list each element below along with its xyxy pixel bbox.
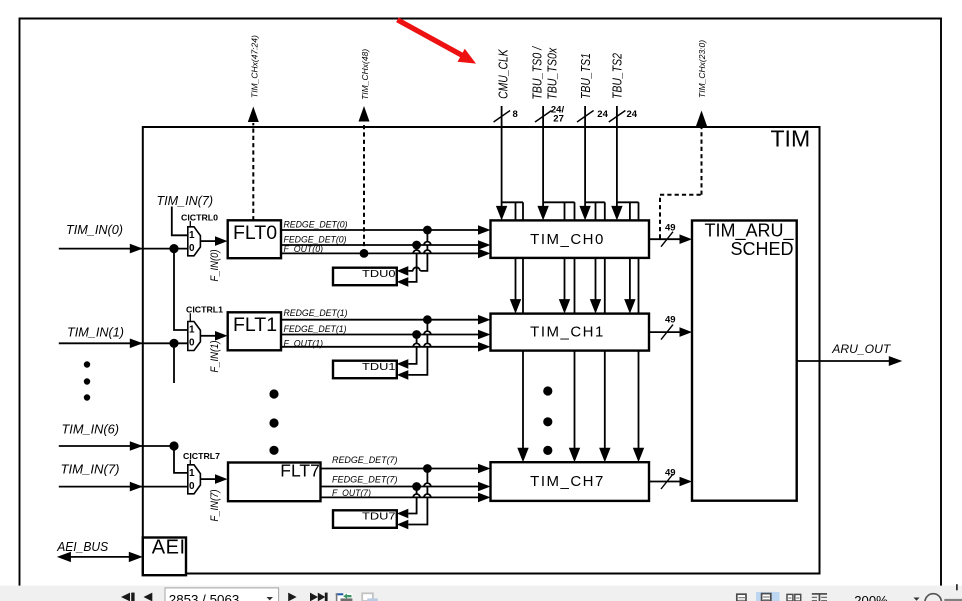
wire REDGE_DET(1) bbox=[281, 319, 480, 321]
svg-text:TIM: TIM bbox=[771, 126, 811, 152]
toolbar next-page button bbox=[288, 593, 296, 601]
svg-text:TIM_IN(7): TIM_IN(7) bbox=[157, 193, 214, 208]
junction FEDGE_DET(1) tap bbox=[412, 330, 421, 339]
wire FEDGE_DET(0) bbox=[281, 244, 480, 246]
slash TBU_TS0 width 24/27 bbox=[535, 111, 552, 123]
slash TBU_TS2 width 24 bbox=[609, 111, 626, 123]
svg-text:TIM_IN(6): TIM_IN(6) bbox=[62, 422, 120, 437]
svg-text:F_IN(7): F_IN(7) bbox=[209, 489, 221, 521]
wire AEI_BUS bbox=[70, 556, 130, 558]
label FEDGE_DET(7) bbox=[332, 474, 398, 484]
label AEI bbox=[152, 537, 186, 559]
label F_IN(7) rotated bbox=[209, 489, 221, 521]
wire TIM_IN(7) stub to CICTRL0 input 1 bbox=[172, 207, 188, 236]
svg-text:TIM_CH0: TIM_CH0 bbox=[530, 231, 605, 248]
svg-text:FLT0: FLT0 bbox=[233, 222, 277, 244]
bus width 8 bbox=[513, 109, 518, 120]
svg-text:1: 1 bbox=[189, 230, 195, 241]
wire TIM_IN(6) input bbox=[59, 445, 174, 447]
red annotation arrow bbox=[397, 20, 476, 64]
label TBU_TS0 / TBU_TS0x rotated bbox=[530, 46, 560, 100]
wire TIM_IN(7) input bbox=[59, 486, 188, 488]
label TIM_IN(7) bbox=[61, 462, 120, 477]
wire TBU_TS2 pass-through duct at TIM_CH0 bbox=[617, 202, 639, 220]
label TIM_CH0 bbox=[530, 231, 605, 248]
label FLT1 bbox=[233, 314, 277, 336]
wire REDGE_DET(0) bbox=[281, 229, 480, 231]
label TIM_CHx(23:0) rotated bbox=[697, 40, 707, 98]
block FLT0 bbox=[228, 220, 281, 258]
TIM module boundary bbox=[143, 127, 820, 574]
svg-text:FLT7: FLT7 bbox=[280, 461, 320, 481]
label REDGE_DET(7) bbox=[332, 455, 398, 465]
arrowheads TIM_IN at TIM boundary bbox=[130, 244, 143, 492]
svg-text:TIM_IN(7): TIM_IN(7) bbox=[61, 462, 120, 477]
label F_IN(0) rotated bbox=[209, 249, 221, 281]
junction FEDGE_DET(7) tap bbox=[412, 482, 421, 491]
arrowheads down into TIM_CH0 top bbox=[496, 206, 623, 221]
arrowheads AEI_BUS double bbox=[57, 552, 143, 562]
svg-text:TBU_TS1: TBU_TS1 bbox=[578, 53, 593, 99]
label TIM_CHx(48) rotated bbox=[360, 49, 370, 100]
label F_OUT(0) bbox=[284, 244, 324, 254]
svg-text:TDU0: TDU0 bbox=[362, 269, 396, 280]
svg-text:CMU_CLK: CMU_CLK bbox=[495, 48, 510, 99]
wire 49-bit output TIM_CH0 bbox=[649, 238, 681, 240]
svg-text:0: 0 bbox=[189, 243, 195, 254]
mux CICTRL1 bbox=[188, 313, 201, 350]
svg-text:TIM_CHx(23:0): TIM_CHx(23:0) bbox=[697, 40, 707, 98]
label TDU7 bbox=[362, 512, 396, 523]
block FLT7 bbox=[228, 463, 321, 502]
wire 49-bit output TIM_CH1 bbox=[649, 331, 681, 333]
label CICTRL0 bbox=[181, 213, 218, 223]
wire TIM_IN(0) branch to CICTRL1 input 1 bbox=[174, 249, 188, 330]
svg-text:0: 0 bbox=[189, 481, 195, 492]
svg-text:0: 0 bbox=[189, 338, 195, 349]
label CICTRL1 bbox=[186, 305, 223, 315]
slash 49 TIM_CH1 bbox=[661, 325, 673, 340]
wire FEDGE_DET(0) to TDU0 lower (hop over F_OUT) bbox=[408, 245, 420, 282]
label AEI_BUS bbox=[56, 540, 109, 554]
wire ARU_OUT bbox=[797, 360, 890, 362]
svg-text:TIM_CHx(48): TIM_CHx(48) bbox=[360, 49, 370, 100]
label ARU_OUT bbox=[831, 342, 892, 356]
junction TIM_IN(0) bbox=[169, 244, 178, 253]
svg-text:FEDGE_DET(7): FEDGE_DET(7) bbox=[332, 474, 398, 484]
wire TIM_IN(1) branch stub down bbox=[173, 343, 175, 383]
block TDU0 bbox=[333, 268, 397, 286]
svg-text:200%: 200% bbox=[854, 593, 888, 601]
label TIM_CH7 bbox=[530, 473, 605, 490]
wire CMU_CLK vertical bbox=[501, 106, 503, 207]
toolbar last-page button bbox=[310, 593, 328, 601]
svg-text:TIM_CH7: TIM_CH7 bbox=[530, 473, 605, 490]
toolbar prev-page button bbox=[144, 593, 153, 601]
toolbar zoom slider track and mark bbox=[944, 584, 962, 600]
label F_IN(1) rotated bbox=[209, 340, 221, 372]
wire FEDGE_DET(7) bbox=[321, 486, 481, 488]
label F_OUT(7) bbox=[332, 488, 371, 498]
pin labels mux CICTRL0 bbox=[189, 230, 195, 254]
svg-text:ARU_OUT: ARU_OUT bbox=[831, 342, 892, 356]
wire FEDGE_DET(1) bbox=[281, 334, 480, 336]
svg-text:SCHED: SCHED bbox=[730, 239, 793, 259]
toolbar book layout icon bbox=[812, 593, 827, 601]
wire REDGE_DET(7) to TDU7 lower bbox=[408, 469, 431, 525]
label TIM_IN(1) bbox=[67, 325, 124, 340]
wire TIM_CHx(47:24) dashed bbox=[252, 123, 254, 220]
svg-text:F_OUT(0): F_OUT(0) bbox=[284, 244, 324, 254]
svg-text:F_OUT(7): F_OUT(7) bbox=[332, 488, 371, 498]
wire F_IN(7) mux output bbox=[200, 478, 216, 480]
svg-text:TDU1: TDU1 bbox=[362, 362, 396, 373]
junction TIM_IN(1) bbox=[169, 339, 178, 348]
slash 49 TIM_CH0 bbox=[661, 232, 673, 247]
svg-text:49: 49 bbox=[665, 223, 676, 234]
wire TIM_CHx(23:0) dashed bbox=[660, 127, 702, 239]
toolbar page number box bbox=[165, 588, 279, 601]
svg-text:49: 49 bbox=[665, 315, 676, 326]
wire REDGE_DET(0) to TDU0 upper (hops) bbox=[408, 230, 431, 271]
svg-text:CICTRL7: CICTRL7 bbox=[183, 451, 220, 461]
label TDU0 bbox=[362, 269, 396, 280]
svg-text:8: 8 bbox=[513, 109, 518, 120]
slash CMU_CLK width 8 bbox=[494, 111, 511, 123]
label TIM_ARU_SCHED bbox=[704, 221, 794, 260]
svg-text:REDGE_DET(1): REDGE_DET(1) bbox=[284, 308, 348, 318]
svg-text:2853 / 5063: 2853 / 5063 bbox=[169, 592, 240, 601]
label TBU_TS1 rotated bbox=[578, 53, 593, 99]
svg-text:24: 24 bbox=[627, 109, 638, 120]
block TIM_CH1 bbox=[491, 314, 650, 351]
wire TBU_TS0 vertical bbox=[542, 106, 544, 207]
wire FEDGE_DET(1) to TDU1 upper bbox=[408, 335, 420, 364]
label F_OUT(1) bbox=[284, 338, 324, 348]
wire TBU_TS0 pass-through duct at TIM_CH0 bbox=[543, 202, 574, 220]
block TIM_CH7 bbox=[491, 462, 650, 501]
wire REDGE_DET(7) bbox=[321, 468, 481, 470]
block FLT1 bbox=[228, 312, 281, 350]
label TBU_TS2 rotated bbox=[610, 52, 625, 99]
arrowheads into TIM_CH0 left bbox=[478, 225, 491, 258]
svg-text:TDU7: TDU7 bbox=[362, 512, 396, 523]
bus width 24 TBU_TS2 bbox=[627, 109, 638, 120]
bus width 49 TIM_CH1 bbox=[665, 315, 676, 326]
label TIM_IN(0) bbox=[66, 222, 123, 237]
wire CMU_CLK pass-through duct at TIM_CH0 bbox=[502, 202, 523, 220]
wire TIM_IN(6) branch to CICTRL7 input 1 bbox=[174, 446, 188, 473]
svg-text:27: 27 bbox=[553, 113, 564, 124]
toolbar next-view button disabled bbox=[362, 593, 378, 601]
label FLT0 bbox=[233, 222, 277, 244]
junction TIM_IN(6) bbox=[169, 441, 178, 450]
bus width 24 TBU_TS1 bbox=[597, 109, 608, 120]
junction REDGE_DET(0) tap bbox=[423, 226, 432, 235]
slash TBU_TS1 width 24 bbox=[577, 111, 594, 123]
wire F_OUT(7) bbox=[321, 496, 481, 498]
svg-text:REDGE_DET(0): REDGE_DET(0) bbox=[284, 220, 348, 230]
toolbar background bbox=[0, 586, 962, 601]
block TIM_ARU_SCHED bbox=[692, 221, 797, 501]
label TDU1 bbox=[362, 362, 396, 373]
svg-text:CICTRL1: CICTRL1 bbox=[186, 305, 223, 315]
wire TBU_TS1 vertical bbox=[584, 106, 586, 207]
block TDU7 bbox=[333, 510, 397, 528]
junction FEDGE_DET(0) tap bbox=[412, 241, 421, 250]
toolbar zoom percent bbox=[854, 593, 919, 601]
wire TBU_TS2 vertical bbox=[616, 106, 618, 207]
wire F_OUT(0) bbox=[281, 252, 480, 254]
wire TBU_TS1 pass-through duct at TIM_CH0 bbox=[585, 202, 605, 220]
ellipsis dots FLT2..6 bbox=[269, 389, 278, 455]
svg-text:TBU_TS0x: TBU_TS0x bbox=[545, 47, 560, 99]
svg-text:1: 1 bbox=[189, 468, 195, 479]
label CMU_CLK rotated bbox=[495, 48, 510, 99]
svg-text:TIM_IN(0): TIM_IN(0) bbox=[66, 222, 123, 237]
arrowheads into TDU7 bbox=[397, 509, 409, 530]
arrowheads into FLT blocks bbox=[215, 236, 228, 484]
arrowheads into TDU1 bbox=[397, 359, 409, 380]
label TIM_IN(6) bbox=[62, 422, 120, 437]
svg-text:TBU_TS2: TBU_TS2 bbox=[610, 52, 625, 99]
svg-text:AEI: AEI bbox=[152, 537, 186, 559]
svg-text:TBU_TS0 /: TBU_TS0 / bbox=[530, 46, 545, 100]
label REDGE_DET(1) bbox=[284, 308, 348, 318]
toolbar first-page button bbox=[121, 593, 135, 601]
label TIM bbox=[771, 126, 811, 152]
ellipsis dots TIM_CH2..6 bbox=[543, 386, 552, 455]
wire F_IN(1) mux output bbox=[200, 335, 216, 337]
svg-text:FLT1: FLT1 bbox=[233, 314, 277, 336]
svg-text:F_OUT(1): F_OUT(1) bbox=[284, 338, 324, 348]
svg-text:F_IN(0): F_IN(0) bbox=[209, 249, 221, 281]
label TIM_IN(7) stub bbox=[157, 193, 214, 208]
block AEI bbox=[143, 538, 186, 576]
svg-text:REDGE_DET(7): REDGE_DET(7) bbox=[332, 455, 398, 465]
wire F_OUT(1) bbox=[281, 346, 480, 348]
wire 49-bit output TIM_CH7 bbox=[649, 481, 681, 483]
arrowheads 49-bit into TIM_ARU_SCHED bbox=[680, 234, 693, 486]
block TIM_CH0 bbox=[491, 220, 650, 258]
arrowheads into TDU0 bbox=[397, 266, 409, 287]
svg-text:F_IN(1): F_IN(1) bbox=[209, 340, 221, 372]
wire TIM_IN(0) input bbox=[59, 248, 188, 250]
junction REDGE_DET(1) tap bbox=[423, 315, 432, 324]
wire TIM_CHx(48) dashed bbox=[363, 123, 365, 254]
arrowheads into TIM_CH7 left bbox=[478, 464, 491, 503]
svg-text:TIM_CHx(47:24): TIM_CHx(47:24) bbox=[250, 35, 260, 98]
toolbar zoom-out button bbox=[925, 594, 942, 601]
svg-text:49: 49 bbox=[665, 467, 676, 478]
block TDU1 bbox=[333, 361, 397, 379]
bus width 49 TIM_CH0 bbox=[665, 223, 676, 234]
arrowheads down into TIM_CH1 top bbox=[510, 299, 636, 314]
label FEDGE_DET(0) bbox=[284, 234, 347, 244]
junction TIM_CHx(48) tap on F_OUT(0) bbox=[360, 249, 369, 258]
wire buses TIM_CH0 to TIM_CH1 bbox=[516, 258, 639, 314]
arrowhead ARU_OUT bbox=[889, 356, 903, 366]
toolbar continuous layout icon selected bbox=[756, 592, 780, 601]
slash 49 TIM_CH7 bbox=[661, 474, 673, 489]
pin labels mux CICTRL1 bbox=[189, 325, 195, 349]
wire FEDGE_DET(7) to TDU7 upper bbox=[408, 487, 420, 514]
wire TIM_IN(1) input bbox=[59, 342, 188, 344]
junction REDGE_DET(7) tap bbox=[423, 464, 432, 473]
arrowheads down into TIM_CH7 top bbox=[517, 448, 644, 463]
bus width 24/27 bbox=[551, 104, 565, 124]
svg-text:24: 24 bbox=[597, 109, 608, 120]
svg-text:AEI_BUS: AEI_BUS bbox=[56, 540, 109, 554]
label FEDGE_DET(1) bbox=[284, 324, 347, 334]
svg-text:1: 1 bbox=[189, 325, 195, 336]
svg-text:TIM_IN(1): TIM_IN(1) bbox=[67, 325, 124, 340]
ellipsis dots TIM_IN(2..5) bbox=[84, 361, 90, 400]
wire REDGE_DET(1) to TDU1 lower bbox=[408, 320, 431, 375]
pin labels mux CICTRL7 bbox=[189, 468, 195, 492]
bus width 49 TIM_CH7 bbox=[665, 467, 676, 478]
label FLT7 bbox=[280, 461, 320, 481]
toolbar single-page layout icon bbox=[737, 594, 746, 601]
label TIM_CHx(47:24) rotated bbox=[250, 35, 260, 98]
svg-text:CICTRL0: CICTRL0 bbox=[181, 213, 218, 223]
svg-text:FEDGE_DET(1): FEDGE_DET(1) bbox=[284, 324, 347, 334]
arrowheads into TIM_CH1 left bbox=[478, 315, 491, 352]
label REDGE_DET(0) bbox=[284, 220, 348, 230]
svg-text:TIM_CH1: TIM_CH1 bbox=[530, 324, 605, 341]
mux CICTRL7 bbox=[188, 460, 201, 494]
toolbar facing layout icon bbox=[787, 594, 801, 601]
arrowheads up dashed TIM_CHx bbox=[248, 106, 707, 126]
svg-text:FEDGE_DET(0): FEDGE_DET(0) bbox=[284, 234, 347, 244]
wire buses TIM_CH1 to TIM_CH7 bbox=[523, 351, 639, 449]
toolbar previous-view button bbox=[336, 593, 353, 601]
label CICTRL7 bbox=[183, 451, 220, 461]
label TIM_CH1 bbox=[530, 324, 605, 341]
wire F_IN(0) mux output bbox=[200, 240, 216, 242]
mux CICTRL0 bbox=[188, 221, 201, 256]
